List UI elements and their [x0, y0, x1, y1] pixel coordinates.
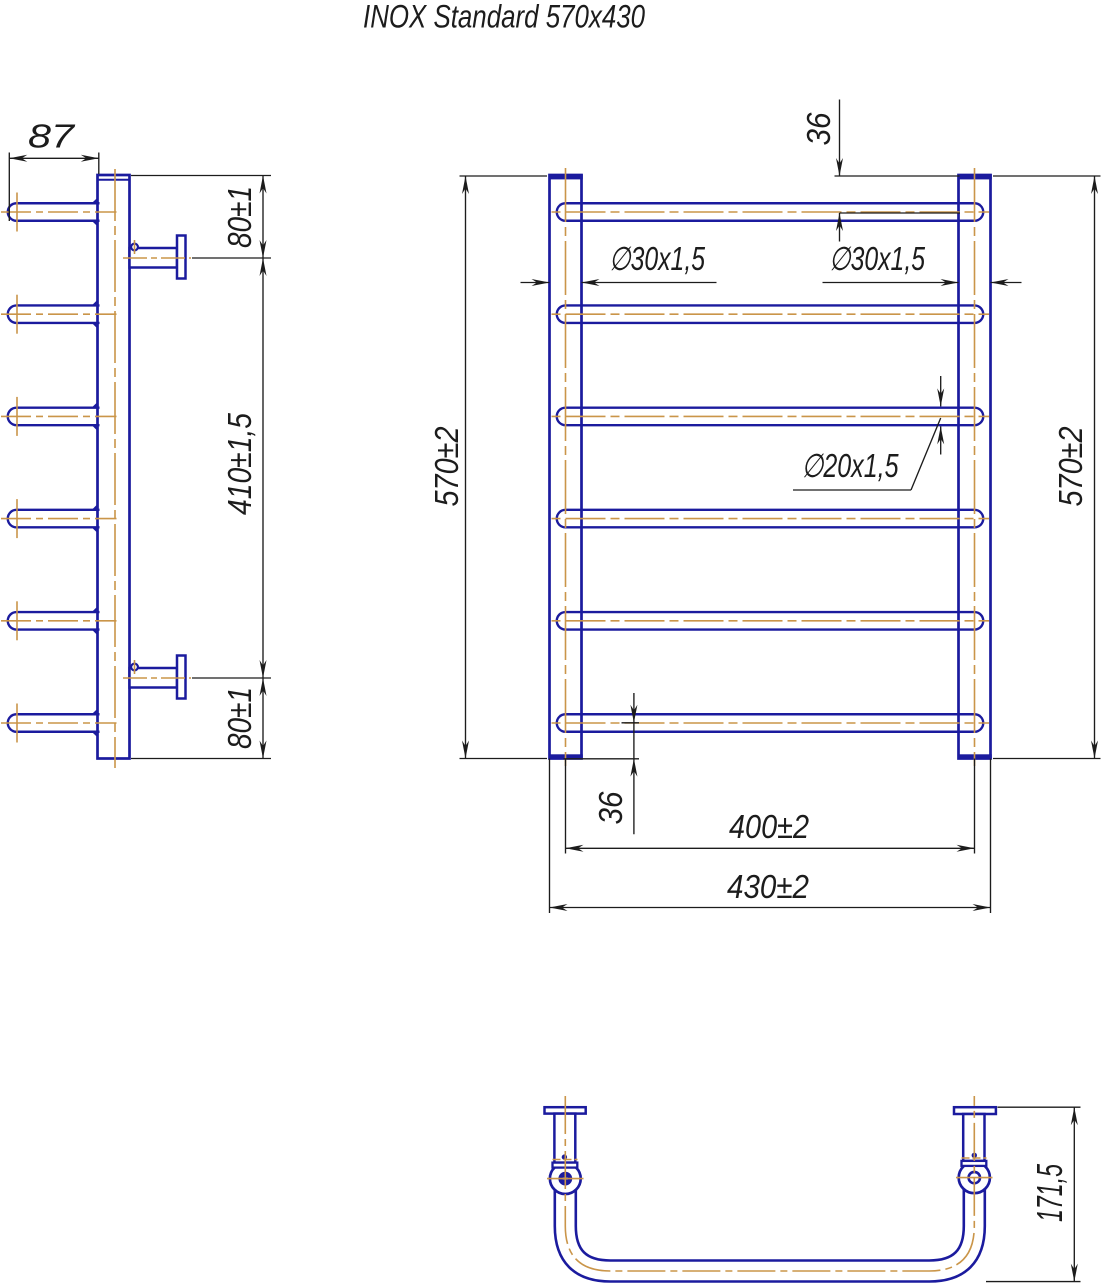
dimension ø20×1,5 rung callout (front view)	[793, 376, 944, 490]
centerline: left view rung 3 axis	[1, 397, 117, 436]
centerline: front view rung 5 axis	[552, 620, 990, 622]
left view bottom bracket	[130, 656, 186, 699]
svg-text:∅30x1,5: ∅30x1,5	[829, 240, 925, 277]
dimension ø30×1,5 left post (front view)	[521, 240, 717, 286]
svg-text:36: 36	[800, 112, 837, 146]
svg-text:171,5: 171,5	[1029, 1163, 1070, 1222]
centerline: front view left post axis	[565, 168, 567, 766]
left view top bracket	[130, 236, 186, 279]
dimension 171,5 (bottom view)	[986, 1107, 1081, 1281]
left view rung 2	[17, 302, 100, 327]
centerline: front view rung 1 axis	[552, 211, 990, 213]
left view wall post	[98, 175, 130, 759]
front view rung 5	[566, 611, 975, 631]
front view rung 6	[566, 713, 975, 733]
left view rung 6	[17, 710, 100, 735]
front view rung 2	[566, 304, 975, 324]
svg-text:36: 36	[592, 791, 629, 825]
left view rung 1	[17, 199, 100, 224]
svg-text:80±1: 80±1	[221, 186, 258, 248]
left view rung 5	[17, 608, 100, 633]
svg-text:400±2: 400±2	[729, 808, 809, 845]
centerline: left view rung 6 axis	[1, 704, 117, 743]
front view right post	[958, 174, 992, 759]
centerline: bottom view pipe axis	[565, 1096, 974, 1271]
centerline: front view rung 3 axis	[552, 415, 990, 417]
centerline: left view rung 2 axis	[1, 295, 117, 334]
front view left post	[549, 174, 583, 759]
bottom view left bracket	[545, 1107, 586, 1167]
svg-text:87: 87	[28, 118, 76, 155]
bottom view U-pipe	[565, 1178, 974, 1271]
front view rung 1	[566, 202, 975, 222]
centerline: front view right post axis	[974, 168, 976, 766]
bottom view right pipe section circle	[959, 1162, 990, 1193]
centerline: left view rung 1 axis	[1, 193, 117, 232]
dimension 87 (left view width)	[9, 118, 99, 222]
bottom view right bracket	[954, 1107, 996, 1166]
svg-text:80±1: 80±1	[221, 687, 258, 749]
dimension 430±2 (front view)	[550, 759, 991, 914]
centerline: front view rung 6 axis	[552, 722, 990, 724]
svg-text:∅20x1,5: ∅20x1,5	[802, 447, 899, 484]
dimension 570±2 left (front view)	[428, 176, 547, 759]
front view rung 4	[566, 509, 975, 529]
dimension 410±1,5 (left view)	[192, 258, 271, 678]
svg-text:430±2: 430±2	[727, 868, 809, 905]
dimension 36 bottom (front view)	[564, 693, 640, 834]
dimension 80±1 top (left view)	[131, 176, 271, 259]
dimension 36 top (front view)	[800, 100, 960, 242]
left view rung 3	[17, 404, 100, 429]
dimension 400±2 (front view)	[566, 759, 975, 854]
bottom view left pipe section circle	[550, 1163, 581, 1194]
centerline: left view top bracket axis	[123, 240, 191, 258]
svg-text:410±1,5: 410±1,5	[221, 412, 258, 515]
centerline: left view bottom bracket axis	[123, 660, 191, 678]
svg-text:∅30x1,5: ∅30x1,5	[609, 240, 705, 277]
centerline: bottom view right circle cross	[956, 1158, 993, 1178]
svg-text:INOX Standard 570x430: INOX Standard 570x430	[363, 0, 645, 35]
front view rung 3	[566, 406, 975, 426]
centerline: front view rung 2 axis	[552, 313, 990, 315]
centerline: left view rung 5 axis	[1, 601, 117, 640]
dimension ø30×1,5 right post (front view)	[823, 240, 1022, 286]
dimension 80±1 bottom (left view)	[131, 678, 271, 759]
centerline: left view rung 4 axis	[1, 499, 117, 538]
centerline: front view rung 4 axis	[552, 518, 990, 520]
svg-text:570±2: 570±2	[428, 427, 465, 507]
centerline: bottom view left circle cross	[547, 1160, 584, 1179]
title: INOX Standard 570x430	[363, 0, 645, 35]
left view rung 4	[17, 506, 100, 531]
dimension 570±2 right (front view)	[993, 176, 1101, 759]
centerline: left view post axis	[114, 169, 116, 768]
svg-text:570±2: 570±2	[1052, 427, 1089, 507]
